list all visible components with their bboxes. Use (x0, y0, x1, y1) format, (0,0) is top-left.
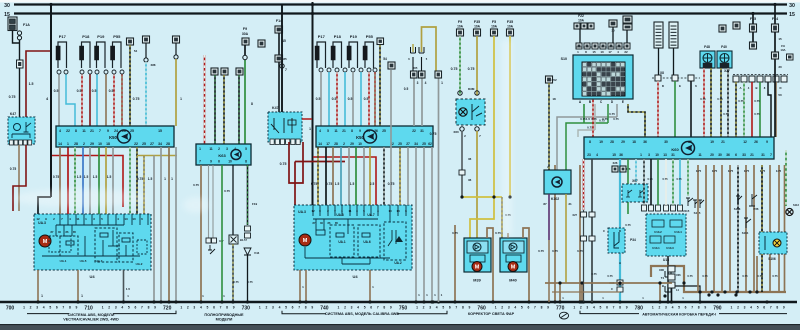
U13 top connectors (642, 205, 647, 211)
wire m5 (348, 147, 350, 205)
wire F14 down (278, 33, 280, 112)
wire below K47 brown (18, 145, 20, 211)
wire m4 (340, 147, 342, 205)
svg-text:1.5: 1.5 (29, 82, 34, 86)
svg-text:31: 31 (420, 129, 424, 133)
svg-text:9: 9 (469, 306, 471, 310)
svg-text:P34: P34 (630, 238, 636, 242)
wire red-wht 0.5 (81, 74, 83, 126)
svg-text:U115: U115 (683, 209, 690, 213)
svg-text:7: 7 (377, 306, 379, 310)
svg-text:2: 2 (580, 306, 582, 310)
svg-text:F9: F9 (458, 20, 462, 24)
svg-text:31: 31 (568, 202, 572, 206)
svg-text:6: 6 (218, 160, 220, 164)
svg-text:U13.1: U13.1 (652, 246, 660, 250)
svg-text:7: 7 (455, 306, 457, 310)
conn wire X27 F (773, 76, 779, 82)
wire s10 B (594, 104, 596, 130)
svg-text:9: 9 (359, 129, 361, 133)
svg-text:36: 36 (643, 140, 647, 144)
svg-text:1: 1 (495, 306, 497, 310)
wire w2 gray2 (352, 72, 354, 126)
svg-text:6: 6 (685, 306, 687, 310)
svg-text:10A: 10A (474, 25, 481, 29)
svg-text:0.75: 0.75 (712, 169, 718, 173)
wire f48 b (710, 68, 712, 137)
wire X27 F (775, 82, 777, 137)
svg-text:X07: X07 (632, 179, 638, 183)
inductive sensor P55 b (363, 34, 374, 68)
svg-text:1: 1 (180, 306, 182, 310)
connector X52 (546, 76, 553, 83)
svg-text:UA.3: UA.3 (298, 210, 306, 214)
fuse F15 box (750, 24, 757, 32)
svg-text:D: D (779, 86, 781, 90)
svg-text:1.5: 1.5 (77, 175, 82, 179)
wire tan tall (413, 78, 415, 126)
svg-text:11: 11 (698, 153, 702, 157)
wire m39 loop (487, 228, 493, 302)
svg-text:21: 21 (750, 153, 754, 157)
svg-text:10A: 10A (780, 48, 785, 52)
svg-text:UA.1: UA.1 (60, 259, 67, 263)
svg-text:M40: M40 (509, 279, 516, 283)
svg-text:22: 22 (624, 50, 628, 54)
wire K63 d2b (212, 165, 214, 238)
svg-text:12: 12 (311, 209, 315, 213)
svg-text:30: 30 (4, 3, 10, 9)
svg-text:X88: X88 (151, 63, 156, 67)
connector X85 (275, 55, 283, 62)
svg-text:740: 740 (320, 305, 329, 311)
svg-text:1: 1 (731, 306, 733, 310)
svg-text:0.75: 0.75 (757, 274, 763, 278)
wire F9 down (244, 45, 246, 55)
svg-text:7: 7 (285, 68, 287, 72)
wire gray f0 (153, 156, 155, 303)
svg-text:0.75: 0.75 (224, 189, 230, 193)
junction dots gnd bus (558, 300, 561, 303)
svg-text:12: 12 (36, 217, 40, 221)
svg-text:1.5: 1.5 (335, 182, 340, 186)
wire u13 gnd (667, 256, 669, 302)
wire X8 6 (690, 81, 692, 137)
svg-text:5: 5 (678, 306, 680, 310)
svg-text:M: M (475, 264, 480, 270)
oval conn lamp d (475, 127, 479, 131)
wire gray midx (421, 78, 423, 126)
svg-text:34: 34 (158, 142, 162, 146)
svg-text:15: 15 (158, 129, 162, 133)
wire brown f (168, 147, 170, 302)
svg-text:0.75: 0.75 (744, 169, 750, 173)
wire brn 580 (579, 165, 581, 302)
relay K63 (196, 144, 251, 165)
wire m2 (325, 147, 327, 205)
trunk x282 (281, 4, 283, 112)
svg-text:36: 36 (468, 178, 472, 182)
brown pi bus (651, 266, 786, 292)
wire darkred elbow (13, 145, 26, 211)
svg-text:0.75: 0.75 (577, 249, 583, 253)
svg-text:S104: S104 (742, 231, 749, 235)
connector X65 e (411, 71, 418, 78)
svg-text:29: 29 (621, 140, 625, 144)
svg-text:12: 12 (743, 140, 747, 144)
conn X27 u60a (581, 212, 587, 217)
svg-text:22: 22 (412, 129, 416, 133)
svg-text:30: 30 (718, 153, 722, 157)
svg-text:0.75: 0.75 (430, 132, 437, 136)
svg-text:4: 4 (425, 81, 427, 85)
connector X55 a (127, 38, 134, 45)
wire X8 E (674, 81, 676, 137)
scan light smudge (14, 189, 146, 207)
svg-text:29: 29 (350, 142, 354, 146)
wire red U under K47 (289, 142, 303, 183)
svg-text:0.75: 0.75 (613, 117, 619, 121)
conn x27e (765, 76, 771, 82)
svg-text:0.75: 0.75 (609, 112, 615, 116)
sensor P34 (608, 228, 625, 253)
wire fork left up (412, 44, 414, 52)
svg-text:4: 4 (234, 147, 236, 151)
svg-text:780: 780 (635, 305, 644, 311)
svg-text:P55: P55 (113, 34, 121, 39)
wire right 11 (784, 165, 786, 292)
svg-text:5: 5 (245, 147, 247, 151)
wire K63 d1 brown (200, 165, 202, 302)
svg-text:18: 18 (106, 142, 110, 146)
wire s10 C (607, 104, 609, 123)
wire yellow bridge (462, 196, 502, 198)
svg-text:P17: P17 (59, 34, 67, 39)
svg-text:27: 27 (150, 142, 154, 146)
conn X26 b (620, 166, 626, 172)
svg-text:15: 15 (592, 50, 596, 54)
wire X18 stub (175, 43, 177, 55)
svg-text:UA.2: UA.2 (394, 261, 401, 265)
ABS U4 inner (95, 228, 117, 262)
svg-text:F48: F48 (704, 45, 710, 49)
svg-text:25: 25 (688, 140, 692, 144)
svg-text:9: 9 (233, 306, 235, 310)
svg-text:8: 8 (245, 160, 247, 164)
svg-text:3: 3 (665, 306, 667, 310)
wire lt-blue 0.5 (66, 74, 75, 126)
wire right 5 (737, 165, 739, 292)
svg-text:8: 8 (226, 306, 228, 310)
svg-text:K50: K50 (356, 135, 364, 140)
svg-text:1: 1 (640, 153, 642, 157)
svg-text:2: 2 (187, 306, 189, 310)
svg-text:0.75: 0.75 (388, 182, 395, 186)
svg-text:1: 1 (441, 81, 443, 85)
wire w2 brnred (374, 72, 376, 126)
svg-text:4: 4 (279, 306, 281, 310)
svg-text:11: 11 (82, 129, 86, 133)
wire u13 c (665, 159, 667, 205)
svg-text:2: 2 (344, 306, 346, 310)
svg-text:0.5: 0.5 (92, 89, 97, 93)
oval conn F9 (243, 55, 247, 59)
svg-text:10: 10 (388, 209, 392, 213)
wire u13 a (650, 159, 652, 205)
svg-text:9: 9 (783, 306, 785, 310)
connector bar X27 (733, 74, 788, 76)
svg-text:8: 8 (251, 102, 253, 106)
sensor P36 (749, 194, 757, 206)
svg-text:10A: 10A (578, 19, 585, 23)
wire m39 gnd (454, 225, 456, 302)
svg-text:26: 26 (374, 129, 378, 133)
svg-text:19: 19 (710, 140, 714, 144)
svg-text:11: 11 (334, 129, 338, 133)
conn wire X27 D (757, 76, 763, 82)
svg-text:790: 790 (713, 305, 722, 311)
wire u13 d (672, 159, 674, 205)
svg-text:21: 21 (721, 140, 725, 144)
svg-text:0.5: 0.5 (316, 97, 321, 101)
svg-text:26: 26 (122, 129, 126, 133)
wire blk-grn b (238, 75, 240, 144)
svg-text:6: 6 (449, 306, 451, 310)
svg-text:10: 10 (98, 142, 102, 146)
wire K63 d5 (247, 165, 249, 225)
wire f48 a (703, 68, 705, 137)
svg-text:18: 18 (632, 140, 636, 144)
svg-text:4: 4 (514, 306, 516, 310)
wire u60 d (635, 159, 637, 190)
connector X06 u13 (665, 271, 671, 292)
tall connector a (654, 22, 663, 48)
svg-text:1.5: 1.5 (107, 175, 112, 179)
svg-text:14: 14 (58, 142, 62, 146)
K47 left pin row (10, 140, 14, 145)
svg-text:СИСТЕМА ABS, МОДЕЛИ: СИСТЕМА ABS, МОДЕЛИ (68, 313, 115, 317)
wire m6 (355, 147, 357, 205)
wire u60 b (591, 159, 593, 302)
svg-text:E: E (679, 84, 681, 88)
wire right 9 (769, 165, 771, 292)
svg-text:8: 8 (351, 129, 353, 133)
wire K63 d3 green (221, 165, 223, 302)
svg-text:9: 9 (76, 306, 78, 310)
svg-text:E: E (622, 100, 624, 104)
svg-text:M: M (303, 238, 308, 244)
top scan edge (0, 0, 800, 2)
inductive sensor P18 b (331, 34, 342, 68)
svg-text:K47: K47 (10, 112, 16, 116)
svg-text:X60: X60 (453, 130, 459, 134)
box top right b (719, 25, 726, 32)
lamp S112 (786, 208, 793, 215)
svg-text:0.75: 0.75 (702, 274, 708, 278)
svg-text:0.75: 0.75 (452, 231, 458, 235)
wire F14 r down (774, 4, 776, 24)
svg-text:3: 3 (429, 306, 431, 310)
svg-text:6: 6 (292, 306, 294, 310)
svg-text:13: 13 (396, 209, 400, 213)
svg-text:0.5: 0.5 (77, 89, 82, 93)
svg-text:8: 8 (148, 306, 150, 310)
svg-text:18: 18 (552, 97, 556, 101)
wire K63 d4 tail (232, 244, 234, 302)
svg-text:9: 9 (311, 306, 313, 310)
svg-text:1: 1 (81, 294, 83, 298)
connector bar X8 (652, 77, 700, 79)
svg-text:P18: P18 (82, 34, 90, 39)
svg-text:8: 8 (69, 306, 71, 310)
svg-text:9: 9 (107, 129, 109, 133)
svg-text:13: 13 (124, 217, 128, 221)
svg-text:7: 7 (691, 306, 693, 310)
svg-text:5: 5 (285, 306, 287, 310)
wire u60 c (627, 159, 629, 214)
bracket AKPP (580, 311, 787, 314)
svg-text:K60: K60 (671, 147, 679, 152)
svg-text:7: 7 (141, 306, 143, 310)
relay K47 left (8, 117, 35, 144)
wire m1 (317, 147, 319, 205)
scan light streak (502, 40, 512, 235)
wire yellow jog (470, 36, 494, 238)
svg-text:X26: X26 (613, 161, 618, 165)
svg-text:A: A (619, 261, 621, 265)
svg-text:3: 3 (417, 81, 419, 85)
svg-text:0.5: 0.5 (364, 97, 369, 101)
svg-text:5: 5 (207, 306, 209, 310)
wire right 1 (705, 165, 707, 292)
wire u13 gnd2 (668, 286, 700, 302)
conn wire X8 6 (688, 75, 694, 81)
wire w2 redwht (336, 72, 338, 126)
junction dots corr3 (460, 195, 463, 198)
junction dots mid2 (298, 300, 301, 303)
svg-text:25: 25 (382, 129, 386, 133)
conn wire X8 D (655, 75, 661, 81)
conn x27g (781, 76, 787, 82)
svg-text:0.75: 0.75 (728, 169, 734, 173)
svg-text:1.5: 1.5 (93, 175, 98, 179)
wire brn-red 0.75 (121, 74, 123, 126)
svg-text:7: 7 (199, 160, 201, 164)
wire s08 out b (476, 131, 478, 238)
wire red-wht 593 (592, 58, 594, 137)
switch S108 (736, 196, 742, 204)
inductive sensor P55 (111, 34, 122, 68)
wire right 4 (729, 165, 731, 292)
svg-text:0.75: 0.75 (607, 274, 613, 278)
wire X27 B (743, 82, 745, 137)
svg-text:8: 8 (541, 306, 543, 310)
svg-text:1: 1 (199, 147, 201, 151)
wire olive striped e (143, 156, 145, 215)
svg-text:25: 25 (142, 142, 146, 146)
wire red bridge2 (313, 157, 376, 205)
connector box a (211, 68, 218, 75)
wire w2 cyan2 (344, 72, 346, 126)
connector ovals row 2 (319, 68, 323, 72)
svg-text:30: 30 (664, 140, 668, 144)
conn X06 c (617, 280, 623, 285)
svg-text:720: 720 (163, 305, 172, 311)
svg-text:26: 26 (754, 140, 758, 144)
svg-text:S108: S108 (734, 207, 741, 211)
svg-text:2: 2 (218, 147, 220, 151)
svg-text:5: 5 (364, 306, 366, 310)
S10 grid (582, 62, 625, 96)
connector left small (17, 60, 24, 68)
svg-text:X27: X27 (724, 69, 730, 73)
wire w2 cyan3 (360, 72, 362, 126)
wire k102 green nest (566, 123, 608, 170)
svg-text:4: 4 (750, 306, 752, 310)
svg-text:F35: F35 (474, 20, 480, 24)
svg-text:B: B (662, 284, 664, 288)
svg-text:6: 6 (735, 153, 737, 157)
svg-text:8: 8 (589, 140, 591, 144)
svg-text:P18: P18 (334, 34, 342, 39)
wire red stub K47 (302, 118, 312, 120)
wire tail olv (399, 147, 401, 205)
svg-text:0.75: 0.75 (602, 117, 608, 121)
svg-text:7: 7 (613, 306, 615, 310)
wire w2 redwht2 (368, 72, 370, 126)
oval conn X13 (144, 58, 148, 62)
connector X06 column (668, 266, 675, 272)
svg-text:9: 9 (390, 306, 392, 310)
bottom scan band (0, 324, 800, 330)
wire X13 stub (145, 43, 147, 58)
box X10 r (772, 52, 779, 59)
svg-text:4: 4 (59, 129, 61, 133)
svg-text:1: 1 (23, 306, 25, 310)
svg-text:1.5: 1.5 (84, 175, 89, 179)
wire dark red 1.5 (26, 51, 51, 117)
wire V44 down (247, 255, 249, 302)
svg-text:F35: F35 (507, 20, 513, 24)
svg-text:87: 87 (543, 202, 547, 206)
svg-text:2: 2 (265, 306, 267, 310)
svg-text:28: 28 (74, 142, 78, 146)
svg-text:2: 2 (501, 306, 503, 310)
inductive sensor P18 (80, 34, 91, 68)
svg-text:U4: U4 (352, 274, 358, 279)
wire s10 E (628, 104, 645, 137)
oval conn X18 (174, 55, 178, 59)
fuse F14 box (275, 26, 283, 33)
svg-text:0.75: 0.75 (738, 99, 744, 103)
wire yellow jog2 (509, 36, 511, 197)
svg-text:7: 7 (62, 306, 64, 310)
svg-text:1: 1 (338, 306, 340, 310)
svg-text:P19: P19 (350, 34, 358, 39)
svg-text:2: 2 (83, 142, 85, 146)
wire F14 r down2 (774, 32, 776, 137)
svg-text:0.75: 0.75 (468, 67, 475, 71)
svg-text:0.75: 0.75 (193, 183, 199, 187)
svg-text:1: 1 (180, 97, 182, 101)
svg-text:24: 24 (114, 129, 118, 133)
svg-text:760: 760 (477, 305, 486, 311)
svg-text:X8: X8 (660, 71, 664, 75)
svg-text:S10: S10 (561, 57, 567, 61)
svg-text:S106: S106 (768, 257, 776, 261)
connector X34 (258, 40, 265, 47)
wire tca (658, 48, 660, 75)
